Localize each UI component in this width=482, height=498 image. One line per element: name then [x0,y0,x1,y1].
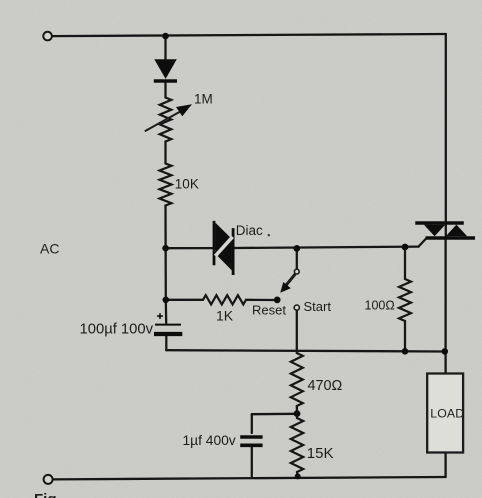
wire: switch common from diac line down to reset contact [296,249,298,270]
diac D2 upper triangle [215,223,232,257]
junction dot diac right / switch [293,245,300,252]
svg-text:1M: 1M [194,92,213,107]
diac D2 right bar [232,228,235,275]
diac D2 white slash [215,237,232,256]
capacitor C1 100uf plus sign [157,313,163,319]
diode D1 triangle [154,59,177,79]
switch pole junction dot [274,297,281,304]
rheostat arrow on 1M [145,104,192,131]
svg-text:1µf 400v: 1µf 400v [183,433,236,448]
resistor R3 1K zigzag [203,295,246,304]
diac D2 left bar [213,221,216,265]
wire: capacitor bottom to lower bus [165,336,167,350]
capacitor C2 1uf top plate [240,435,262,438]
wire: lower bus from capacitor to right vertical [166,350,445,351]
wire: 1K node to 1K resistor [166,299,203,301]
junction dot gate [402,244,409,251]
wire: LOAD bottom to lower rail [444,453,446,478]
wire: 15K top lead [296,414,298,419]
wire: right vertical from top corner to triac MT2 [445,34,447,238]
junction dot diac left [162,245,169,252]
LOAD box [427,374,463,453]
capacitor C1 bottom plate [154,332,182,336]
svg-text:Start: Start [304,299,332,314]
resistor R2 10K zigzag [160,164,172,206]
triac Q1 top bar (MT2) [415,221,464,225]
wire: 100-ohm upper lead [404,247,406,279]
resistor R6 100-ohm zigzag [399,279,411,321]
svg-text:100µf 100v: 100µf 100v [80,322,154,338]
wire: diode cathode to 1M [164,83,166,98]
wire: 470-ohm top lead from lower bus [296,351,298,353]
svg-text:Reset: Reset [252,303,286,318]
capacitor C2 1uf bottom plate [240,443,262,447]
svg-text:Fig: Fig [34,491,57,498]
switch reset contact circle [294,269,299,274]
wire: triac MT1 down to LOAD [444,239,446,374]
wire: 470-ohm bottom lead to junction [296,406,299,414]
wire: diac line left segment [166,247,213,249]
wire: bottom rail [53,477,446,479]
wire: 100-ohm lower lead [404,321,406,351]
wire: 1uf capacitor bottom lead [251,446,253,476]
diode D1 cathode bar [154,79,177,82]
switch start contact circle [294,305,299,310]
triac Q1 left triangle [424,225,446,237]
wire: 1K resistor to switch pole [246,299,277,302]
svg-text:Diac: Diac [236,223,263,238]
resistor R4 470-ohm zigzag [291,353,303,406]
wire: 1uf capacitor top lead [251,414,253,433]
svg-text:100Ω: 100Ω [365,299,395,313]
junction dot top bus [162,33,169,40]
svg-text:AC: AC [40,241,59,257]
resistor R1 1M rheostat zigzag [160,98,172,142]
triac Q1 bottom bar (MT1) [426,236,476,240]
wire: diac line right segment to triac gate [234,247,418,248]
wire: start contact down to lower bus [296,310,298,351]
speck after Diac [268,234,270,236]
junction dot 1K left [163,297,170,304]
junction dot 470/15K [294,410,301,417]
svg-text:1K: 1K [216,308,234,324]
svg-text:10K: 10K [175,177,199,192]
svg-text:470Ω: 470Ω [308,378,343,394]
capacitor C1 top plate [155,324,181,326]
switch arm with arrowhead [280,274,295,293]
junction dot lower bus right [442,348,449,355]
wire: 10K down to 1K node (through diac node) [164,206,167,300]
diac D2 lower triangle [215,236,232,271]
junction dot 100-ohm bottom [402,348,409,355]
svg-text:LOAD: LOAD [430,406,464,420]
wire: 1M to 10K [164,142,166,164]
wire: triac gate diagonal [419,239,427,247]
triac Q1 right triangle [446,225,467,237]
resistor R5 15K zigzag [291,418,303,472]
wire: diac node to capacitor top [165,300,168,323]
terminal: AC bottom input [44,475,53,484]
wire: diode anode stub [164,36,166,59]
junction dot 15K bottom [295,473,301,479]
wire: top bus from AC terminal to right corner [52,34,446,36]
terminal: AC top input [43,32,52,41]
wire: 15K bottom lead [296,472,299,476]
svg-text:15K: 15K [307,445,334,462]
wire: junction to 1uf capacitor horizontal [252,413,297,416]
